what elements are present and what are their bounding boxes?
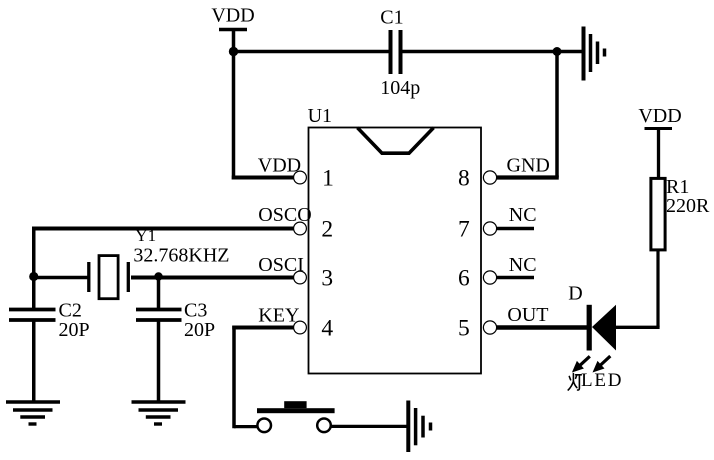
- svg-text:20P: 20P: [184, 319, 215, 341]
- svg-text:C1: C1: [380, 7, 403, 29]
- svg-text:LED: LED: [581, 370, 623, 391]
- svg-text:VDD: VDD: [211, 5, 254, 27]
- svg-text:104p: 104p: [380, 77, 420, 99]
- svg-text:OSCI: OSCI: [258, 254, 304, 276]
- svg-text:U1: U1: [308, 105, 332, 127]
- svg-text:Y1: Y1: [135, 226, 156, 245]
- svg-text:VDD: VDD: [638, 105, 681, 127]
- svg-text:7: 7: [458, 216, 470, 242]
- svg-text:20P: 20P: [59, 319, 90, 341]
- svg-text:KEY: KEY: [258, 304, 299, 326]
- svg-text:5: 5: [458, 315, 470, 341]
- svg-text:3: 3: [321, 265, 333, 291]
- svg-text:NC: NC: [509, 254, 537, 276]
- svg-text:NC: NC: [509, 204, 537, 226]
- svg-text:VDD: VDD: [258, 155, 301, 177]
- svg-text:32.768KHZ: 32.768KHZ: [133, 245, 229, 267]
- svg-text:1: 1: [322, 165, 334, 191]
- svg-text:8: 8: [458, 165, 470, 191]
- svg-text:2: 2: [321, 216, 333, 242]
- svg-text:OSCO: OSCO: [258, 204, 311, 226]
- svg-text:D: D: [568, 283, 582, 305]
- svg-text:4: 4: [321, 315, 333, 341]
- svg-text:220R: 220R: [666, 195, 710, 217]
- svg-text:GND: GND: [507, 155, 550, 177]
- svg-text:6: 6: [458, 265, 470, 291]
- svg-text:OUT: OUT: [507, 304, 548, 326]
